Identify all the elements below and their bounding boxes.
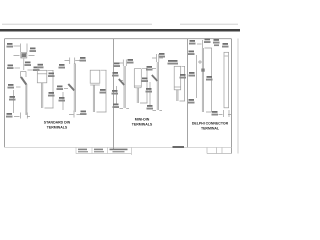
drawing frame top border (5, 38, 232, 40)
figure J top-left label (189, 40, 196, 45)
figure H bottom label (147, 105, 154, 110)
figure A dim label right (30, 48, 37, 53)
figure D bend (68, 84, 74, 91)
figure G dim label (142, 78, 149, 83)
figure C dim label upper (48, 73, 55, 78)
figure G: mini-DIN terminal body (134, 68, 147, 103)
figure F vertical dim label (112, 90, 119, 95)
figure J: long straight pin (197, 40, 212, 112)
caption MINI-DIN TERMINALS (132, 118, 153, 127)
figure F: mini-DIN bent pin (117, 60, 131, 109)
figure B bottom dim label (6, 113, 13, 118)
svg-text:STANDARD DIN: STANDARD DIN (44, 121, 71, 125)
figure H bend (152, 75, 158, 81)
figure D: bent pin, side view (63, 58, 80, 118)
figure E: terminal body with pin (90, 70, 106, 112)
figure A dim label center-below (25, 62, 32, 67)
figure B: bent solder pin, side view (14, 72, 31, 119)
figure K: connector terminal tall body (219, 52, 232, 117)
drawing frame right border (231, 39, 233, 154)
caption DELPHI CONNECTOR TERMINAL (192, 122, 229, 131)
figure A dim label bottom-left (7, 65, 14, 70)
title block table (207, 148, 232, 154)
sheet top faint edge line (2, 23, 238, 25)
figure I: mini-DIN terminal body 2 (174, 66, 185, 101)
figure C: terminal body with pin, side view (37, 70, 53, 108)
figure J top-mid label (204, 39, 211, 44)
figure A: standard DIN pin end view with dimensions (14, 44, 35, 71)
svg-text:TERMINAL: TERMINAL (201, 126, 220, 130)
figure K bottom label (212, 111, 219, 116)
svg-text:MINI-DIN: MINI-DIN (135, 118, 150, 122)
figure H vertical dim label (146, 88, 153, 93)
sheet right outer edge line (237, 39, 239, 154)
drawing frame bottom border (5, 146, 232, 148)
figure J left dim label (189, 72, 196, 77)
figure A hatch blob (22, 53, 27, 57)
figure D top dim label (80, 57, 87, 62)
title strip cell borders (76, 148, 132, 156)
figure A dim label bottom-right (33, 67, 40, 72)
figure A dim label top-left (7, 43, 14, 48)
title strip text block 3 (110, 149, 128, 151)
figure J left label (188, 51, 195, 56)
figure J solder dot (201, 69, 204, 72)
figure D 0.6 label (57, 86, 64, 91)
figure D vertical dim label (59, 97, 66, 102)
figure C dim label lower (48, 92, 55, 97)
panel divider 2 (187, 39, 189, 148)
svg-text:TERMINALS: TERMINALS (47, 125, 68, 129)
figure H top label (159, 53, 166, 58)
drawing frame left border (4, 39, 6, 148)
figure K top-right label (222, 43, 229, 48)
panel divider 1 (113, 39, 115, 149)
title strip text block 1 (78, 149, 87, 151)
figure B bend (21, 77, 26, 85)
figure C label above (37, 64, 44, 69)
figure J bottom-left label (188, 99, 195, 104)
figure H: mini-DIN bent pin 2 (150, 54, 163, 111)
figure D left label (59, 64, 66, 69)
figure K top label (213, 39, 220, 44)
svg-text:TERMINALS: TERMINALS (132, 122, 153, 126)
figure I top label (168, 60, 178, 62)
caption STANDARD DIN TERMINALS (44, 121, 71, 130)
figure F bend (119, 79, 124, 85)
figure B vertical dim label (9, 96, 16, 101)
title strip text block 2 (94, 149, 103, 151)
figure F bottom label (113, 104, 120, 109)
scale note text (173, 146, 185, 148)
figure B label 0.6 (8, 84, 15, 89)
figure E dim label (100, 89, 107, 94)
svg-text:DELPHI CONNECTOR: DELPHI CONNECTOR (192, 122, 229, 126)
figure H 0.6 label (146, 66, 153, 71)
figure J right dim label (206, 76, 213, 81)
figure I dim label (180, 74, 187, 79)
figure F top-left label (114, 63, 121, 68)
figure D bottom label (80, 111, 87, 116)
thick top rule (0, 29, 240, 32)
figure F top-right label (127, 59, 134, 64)
figure F 0.6 label (112, 72, 119, 77)
